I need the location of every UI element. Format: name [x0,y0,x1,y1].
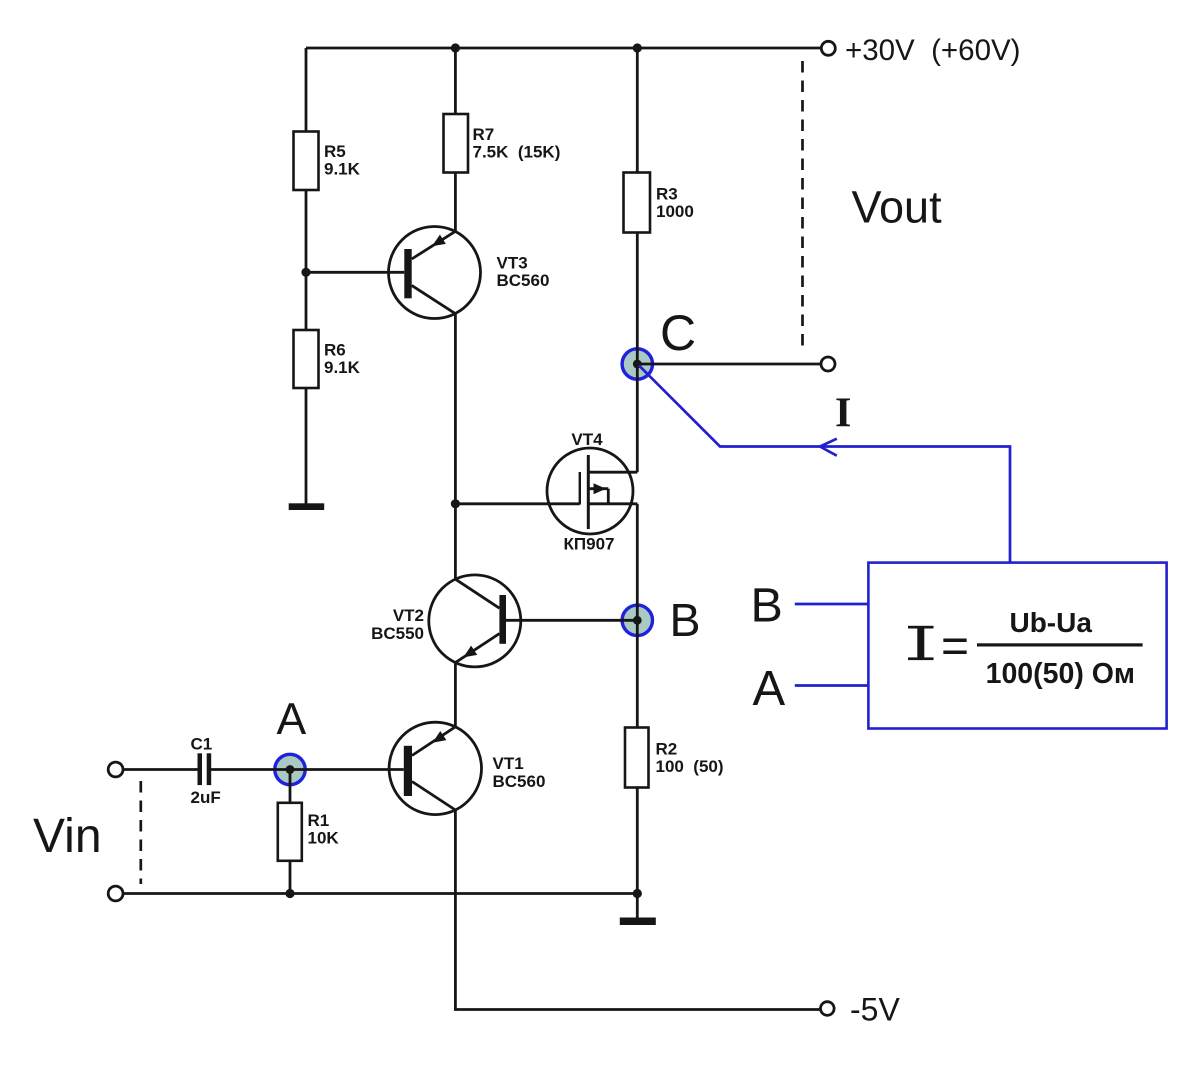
node A dot [286,765,295,774]
svg-text:100(50) Ом: 100(50) Ом [986,658,1135,690]
wire A to box [795,684,869,687]
wire VT3 collector to VT2 collector [454,314,457,580]
resistor R5 [294,132,361,191]
svg-text:C: C [660,305,696,361]
junction dot R1 bottom [285,889,294,898]
transistor VT3 BC560 [389,227,550,319]
svg-text:Ub-Ua: Ub-Ua [1009,607,1092,638]
wire R5 column top [305,48,308,132]
junction dot top rail / R7 [451,43,460,52]
svg-text:B: B [670,594,701,646]
svg-text:-5V: -5V [850,992,900,1028]
svg-text:VT4: VT4 [571,430,603,449]
wire R3 to node C [636,233,639,365]
svg-text:КП907: КП907 [564,535,615,554]
node B dot [633,616,642,625]
wire node A to R1 [289,770,292,803]
wire R2 to ground [636,788,639,918]
resistor R1 [278,803,340,861]
wire Vin terminal to C1 [122,768,198,771]
wire node C to Vout terminal [637,363,821,366]
ground (R2) [620,918,656,926]
svg-text:C1: C1 [191,735,213,754]
svg-text:VT2: VT2 [393,606,424,625]
wire +30V top rail [306,47,821,50]
blue wire from node C to box [639,366,1010,563]
svg-text:VT3: VT3 [497,254,528,273]
wire R7 top lead [454,48,457,114]
dashed line Vout [801,61,804,347]
svg-text:I: I [835,391,851,437]
node C marker [622,349,652,379]
svg-text:2uF: 2uF [191,788,221,807]
svg-text:=: = [941,620,969,673]
junction dot top rail / R3 [633,43,642,52]
wire C1 to node A to VT1 base [211,768,404,771]
terminal Vout lower [821,357,835,371]
svg-text:9.1K: 9.1K [324,358,361,377]
wire R5 to R6 [305,190,308,330]
wire R1 to bottom rail [289,861,292,894]
node A marker [275,754,305,784]
wire VT4 source to node B to R2 [636,504,639,728]
svg-text:R6: R6 [324,341,346,360]
wire R7 to VT3 emitter [454,173,457,232]
svg-text:R7: R7 [473,125,495,144]
svg-text:9.1K: 9.1K [324,160,361,179]
junction dot R5/R6 base [301,268,310,277]
dashed line Vin [139,781,142,884]
svg-text:+30V (+60V): +30V (+60V) [845,34,1020,67]
transistor VT2 BC550 [371,575,521,667]
node C dot [633,360,642,369]
svg-text:R2: R2 [656,740,678,759]
svg-text:B: B [751,579,783,633]
blue current arrow [820,439,837,456]
wire VT2 emitter to VT1 emitter [454,663,457,727]
svg-text:10K: 10K [308,829,340,848]
wire R6 to ground [305,388,308,504]
svg-text:Vout: Vout [852,182,943,233]
wire B to box [795,603,869,606]
svg-text:VT1: VT1 [493,754,524,773]
wire node C to VT4 drain [636,364,639,472]
terminal Vin top [108,762,123,777]
junction dot VT4 gate [451,499,460,508]
wire R3 top lead [636,48,639,173]
svg-text:A: A [753,662,786,716]
svg-text:BC560: BC560 [497,271,550,290]
svg-text:Vin: Vin [33,810,102,863]
svg-text:BC550: BC550 [371,624,424,643]
resistor R3 [624,173,694,233]
svg-text:1000: 1000 [656,202,694,221]
svg-text:BC560: BC560 [493,772,546,791]
svg-text:A: A [277,695,307,744]
resistor R2 [625,728,724,788]
junction dot bottom rail / R2 [633,889,642,898]
formula box [868,563,1166,729]
svg-text:100 (50): 100 (50) [656,757,724,776]
svg-text:7.5K (15K): 7.5K (15K) [473,143,561,162]
ground (R6) [289,503,325,510]
formula I = (Ub-Ua)/(100(50) Om) [908,607,1143,690]
resistor R6 [294,330,361,388]
transistor VT1 BC560 [389,722,545,814]
wire VT3 base [306,271,404,274]
wire Vin bottom rail [123,892,637,895]
transistor VT4 KP907 (MOSFET) [547,430,637,554]
capacitor C1 [191,735,221,808]
terminal Vin bottom [108,886,123,901]
wire VT1 collector to -5V rail [455,810,820,1010]
terminal +30V [821,41,835,55]
svg-text:R5: R5 [324,142,346,161]
node B marker [622,605,652,635]
svg-text:R3: R3 [656,185,678,204]
wire VT2 base to node B [506,619,638,622]
resistor R7 [444,114,561,173]
wire VT4 gate [455,502,579,505]
svg-text:R1: R1 [308,811,330,830]
terminal -5V [821,1002,835,1016]
